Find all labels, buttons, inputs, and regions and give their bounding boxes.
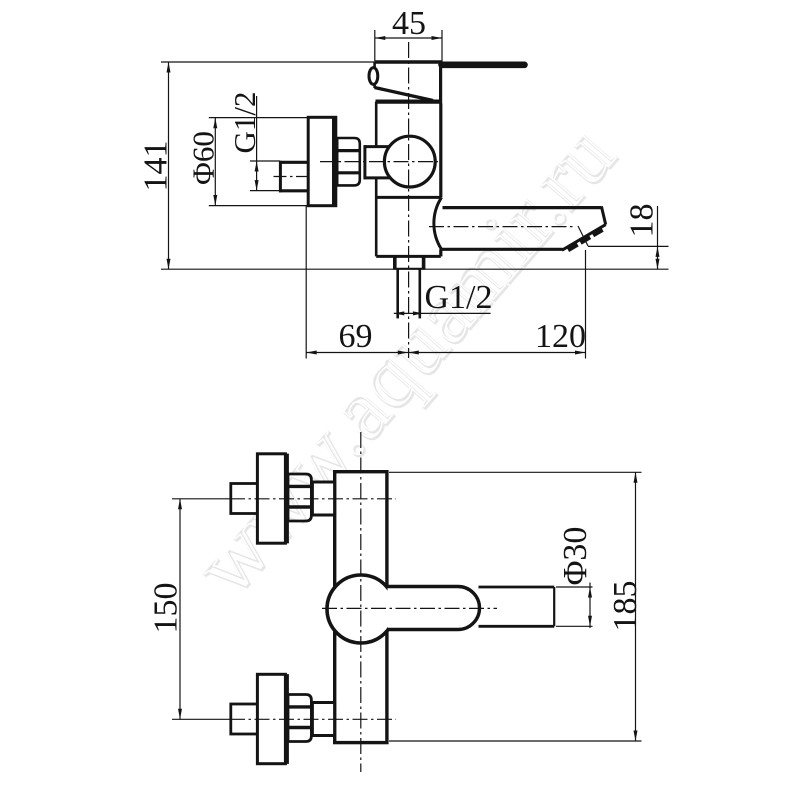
body left edge upper [375, 102, 378, 146]
dimension phi60 arrows [213, 118, 217, 129]
bottom connection centerline [172, 718, 396, 720]
spout tip right edge [601, 206, 605, 224]
body divider line [376, 196, 441, 199]
dimension G1/2 bottom arrows [394, 311, 405, 315]
dimension 150 line [179, 499, 181, 720]
dimension phi60 line [209, 118, 309, 206]
valve stem housing left edge [363, 145, 366, 179]
cap bottom thick line [376, 99, 442, 103]
wall nipple left edge [279, 161, 282, 193]
wall flange plate [308, 117, 336, 205]
spout pipe bottom edge [479, 625, 555, 628]
body vertical centerline (front view) [360, 432, 362, 772]
top connection flange heavy edge [284, 454, 289, 544]
dimension 69/120 line [306, 206, 585, 359]
valve horizontal centerline [320, 161, 438, 163]
ball horizontal centerline [322, 607, 497, 609]
dimension 18 line [588, 206, 669, 269]
svg-text:120: 120 [535, 318, 586, 355]
body column [335, 472, 387, 743]
lever handle base slant [375, 88, 434, 101]
valve circle [384, 136, 435, 187]
dimension G1/2 bottom line [394, 312, 491, 314]
wall nipple bottom edge [279, 189, 309, 192]
dimension phi30 arrows [588, 587, 592, 598]
aerator marks [568, 230, 603, 250]
body left edge lower [375, 179, 378, 257]
body right edge [439, 104, 442, 198]
spout centerline [429, 226, 574, 228]
spout bottom edge [442, 248, 563, 251]
body bottom edge [376, 255, 441, 258]
dimension 18 arrows [656, 246, 660, 257]
ball joint circle [327, 575, 395, 643]
aerator thin slash [578, 226, 588, 246]
body right edge below spout [439, 249, 442, 256]
faucet cap left edge [373, 62, 376, 88]
valve stem housing top edge [364, 145, 390, 148]
svg-text:69: 69 [339, 318, 373, 355]
valve stem housing bottom edge [364, 176, 390, 179]
spout root arc [434, 197, 442, 249]
top connection nut [231, 484, 258, 514]
dimension 185 arrows [634, 472, 638, 483]
lever handle bar [442, 62, 525, 69]
dimension phi30 line [556, 583, 593, 629]
threaded collar [337, 138, 360, 185]
dimension 45 arrows [375, 36, 386, 40]
bottom connection nut [231, 704, 258, 734]
dimension 185 line [389, 472, 642, 741]
svg-text:150: 150 [148, 583, 185, 634]
bottom connection flange heavy edge [284, 674, 289, 764]
spout pipe top edge [479, 586, 555, 589]
wall flange heavy right edge [332, 117, 336, 206]
spout cut face [562, 225, 606, 251]
dimension 69/120 arrows [306, 351, 317, 355]
faucet cap top edge [375, 60, 442, 63]
top connection adapter [312, 482, 334, 515]
watermark www.aquamir.ru [175, 105, 634, 612]
dimension G1/2 top arrows [255, 161, 259, 172]
bottom outlet nut [393, 256, 425, 268]
svg-text:45: 45 [392, 5, 426, 42]
faucet cap right edge [439, 62, 442, 104]
spout pipe end edge [553, 587, 555, 626]
wall nipple G1/2 top edge [279, 161, 309, 164]
bottom connection thread [288, 695, 311, 742]
spout top edge [443, 206, 602, 209]
wall nipple centerline [274, 176, 323, 178]
top connection flange [257, 454, 285, 543]
spout capsule [388, 587, 480, 630]
bottom connection adapter [312, 703, 334, 736]
dimension 150 arrows [178, 499, 182, 510]
svg-text:185: 185 [607, 581, 644, 632]
bottom connection flange [257, 674, 285, 763]
top connection centerline [172, 498, 396, 500]
body vertical centerline [408, 42, 410, 358]
dimension 141 line [161, 62, 669, 269]
bottom outlet pipe [398, 269, 420, 319]
lever handle pivot ellipse [369, 68, 378, 85]
dimension 141 arrows [167, 62, 171, 73]
top connection thread [288, 474, 311, 521]
svg-text:18: 18 [624, 204, 661, 238]
dimension 45 line [375, 30, 442, 62]
svg-text:G1/2: G1/2 [425, 279, 493, 316]
svg-text:Φ30: Φ30 [557, 527, 594, 586]
dimension G1/2 top line [250, 96, 280, 191]
